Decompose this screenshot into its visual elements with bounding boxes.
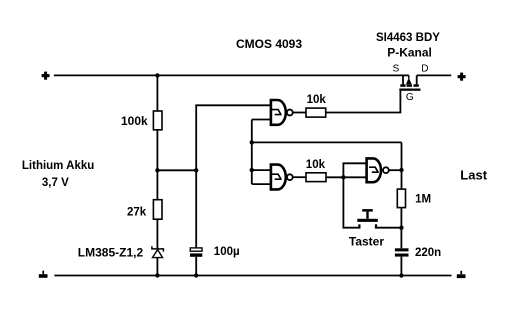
node junction taster / C2 <box>399 226 403 230</box>
svg-text:220n: 220n <box>415 247 441 259</box>
pushbutton S1 Taster <box>357 209 378 229</box>
svg-text:S: S <box>393 64 400 75</box>
svg-text:10k: 10k <box>307 94 327 106</box>
node junction gate 2 inputs <box>250 168 254 172</box>
wire R4 to gate 3 node <box>326 176 366 178</box>
wire cap branch up and to gate 1 input A <box>196 105 270 170</box>
node junction cap branch <box>194 168 198 172</box>
svg-text:D: D <box>421 64 428 75</box>
wire gate 2 input B stub <box>252 183 270 185</box>
wire top rail left (+ to MOSFET source) <box>54 74 409 76</box>
svg-text:P-Kanal: P-Kanal <box>387 46 432 60</box>
node junction gate 3 output <box>399 168 403 172</box>
svg-text:3,7 V: 3,7 V <box>42 177 69 189</box>
svg-text:LM385-Z1,2: LM385-Z1,2 <box>78 246 144 260</box>
nand gate U1B (schmitt) <box>271 165 293 190</box>
resistor R3 10k <box>306 108 326 117</box>
svg-text:Lithium Akku: Lithium Akku <box>22 160 94 172</box>
wire gate 3 output down to R5 <box>401 170 403 189</box>
wire gate 1 output to R3 <box>293 112 306 114</box>
svg-text:Taster: Taster <box>349 235 384 249</box>
wire R3 to MOSFET gate <box>326 91 401 113</box>
wire R5 to taster node <box>400 208 402 228</box>
svg-text:10k: 10k <box>306 159 326 171</box>
node A junction (divider) <box>155 168 159 172</box>
svg-text:1M: 1M <box>415 194 431 206</box>
wire top rail right (MOSFET drain to + Last) <box>417 74 452 76</box>
svg-text:100µ: 100µ <box>214 246 240 258</box>
svg-text:SI4463 BDY: SI4463 BDY <box>376 32 440 44</box>
nand gate U1C (schmitt) <box>367 158 389 182</box>
svg-text:CMOS 4093: CMOS 4093 <box>236 37 302 51</box>
wire C2 to bottom rail <box>400 257 402 276</box>
node junction C2 bottom rail <box>399 273 403 277</box>
wire gate 1 input B stub <box>252 119 270 121</box>
capacitor C1 100u leads <box>195 170 197 275</box>
wire left branch vertical <box>156 75 158 275</box>
node junction feedback x251 <box>250 140 254 144</box>
wire gate 2 output to R4 <box>293 176 306 178</box>
wire gate 3 output <box>389 169 402 171</box>
wire bottom rail <box>54 275 451 277</box>
resistor R1 100k <box>153 111 162 130</box>
wire gate 2 input A stub <box>252 169 270 171</box>
resistor R4 10k <box>306 173 326 182</box>
wire feedback horizontal <box>252 141 402 143</box>
plus terminal right <box>458 73 466 81</box>
minus terminal right <box>457 271 466 278</box>
transistor Q1 SI4463 p-channel MOSFET <box>399 75 420 90</box>
resistor R5 1M <box>397 189 405 208</box>
node junction gate 3 input <box>341 175 345 179</box>
minus terminal left <box>39 271 48 278</box>
capacitor C2 220n plates <box>395 248 409 256</box>
capacitor C1 100u electrolytic plates <box>190 248 202 257</box>
nand gate U1A (schmitt) <box>271 100 293 125</box>
svg-text:G: G <box>406 92 414 103</box>
zener diode D1 LM385 <box>152 246 164 257</box>
node junction cap bottom rail <box>194 273 198 277</box>
svg-text:Last: Last <box>460 167 487 182</box>
wire feedback up from gate 3 output <box>401 142 403 170</box>
wire gate 3 input A loop <box>343 163 366 177</box>
wire node to C2 <box>400 228 402 249</box>
resistor R2 27k <box>153 200 162 220</box>
svg-text:100k: 100k <box>121 114 148 128</box>
wire node A to cap branch <box>157 169 196 171</box>
node junction diode bottom rail <box>155 273 159 277</box>
wire taster right contact to node <box>376 227 401 229</box>
wire gate 3 node down to taster <box>343 177 359 227</box>
node junction top rail x157 <box>155 73 159 77</box>
wire feedback net vertical x251.8 <box>251 120 253 185</box>
svg-text:27k: 27k <box>127 207 147 219</box>
plus terminal left <box>42 72 50 80</box>
